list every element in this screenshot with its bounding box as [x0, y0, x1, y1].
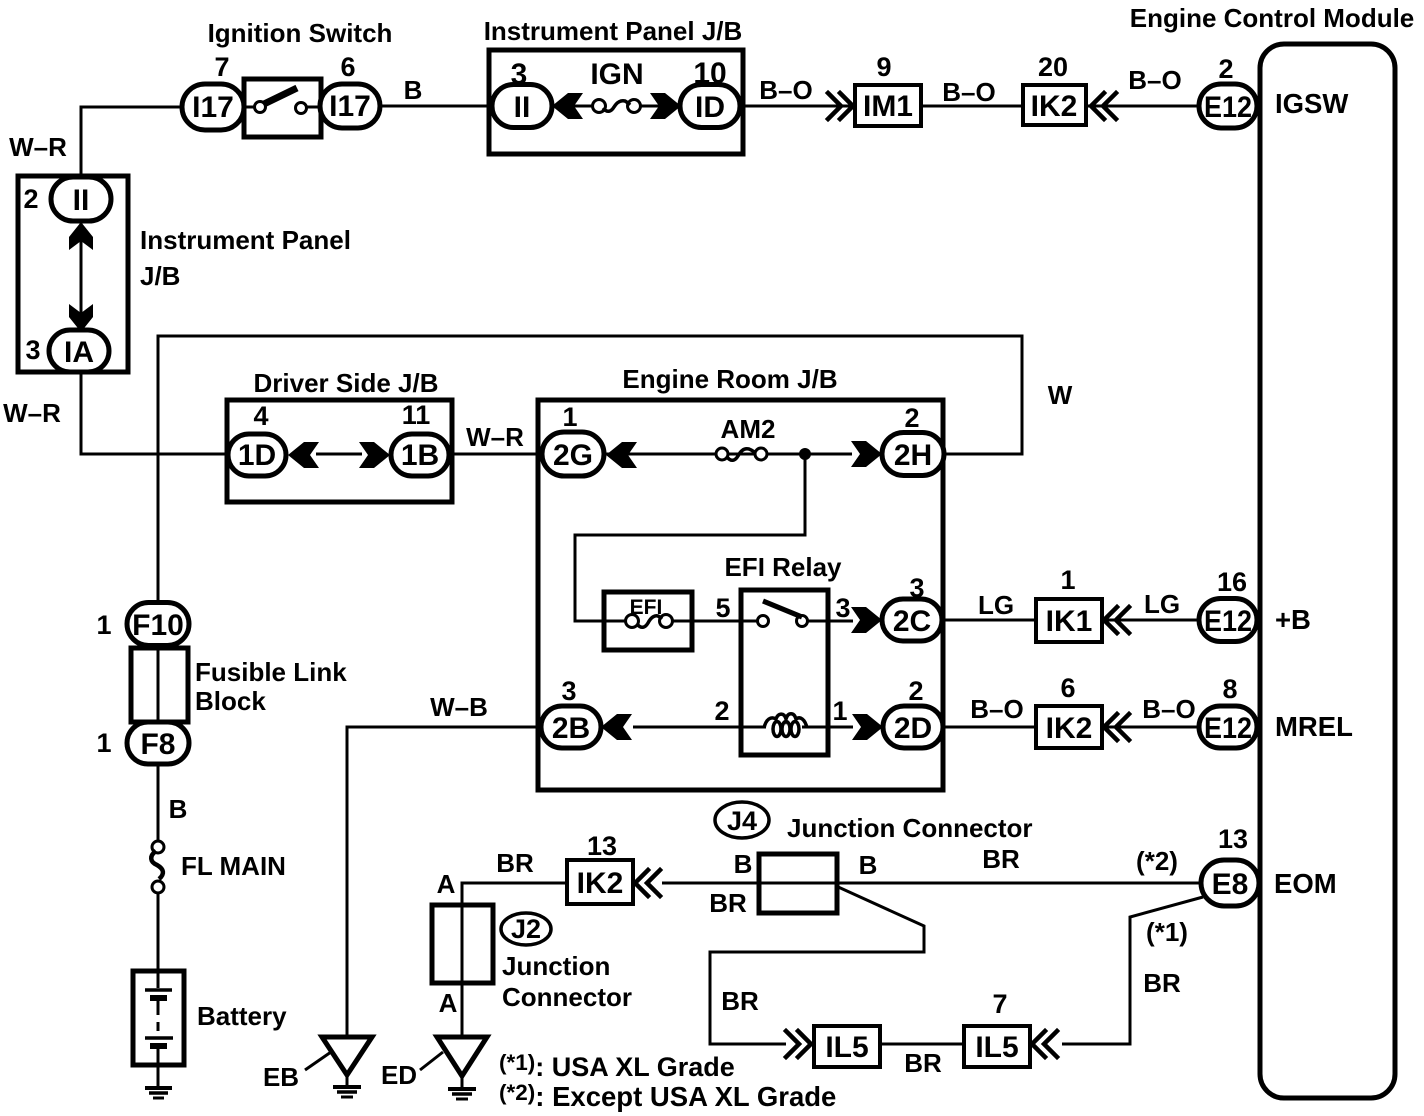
svg-text:3: 3 — [511, 58, 528, 91]
svg-text:8: 8 — [1222, 674, 1237, 704]
svg-text:16: 16 — [1217, 567, 1247, 597]
svg-text:IK1: IK1 — [1046, 605, 1093, 638]
svg-text:B: B — [859, 850, 878, 880]
svg-text:Block: Block — [195, 686, 266, 716]
svg-text:6: 6 — [1060, 673, 1075, 703]
svg-text:10: 10 — [693, 57, 726, 90]
svg-text:J/B: J/B — [140, 261, 180, 291]
svg-text:2G: 2G — [553, 439, 593, 472]
svg-text:3: 3 — [835, 593, 850, 623]
svg-text:J4: J4 — [727, 806, 757, 836]
svg-text:1: 1 — [1060, 565, 1075, 595]
svg-text:1B: 1B — [401, 439, 439, 472]
svg-text:ED: ED — [381, 1060, 417, 1090]
svg-text:II: II — [73, 184, 90, 217]
svg-text:W–B: W–B — [430, 692, 488, 722]
svg-text:(*1): USA XL Grade: (*1): USA XL Grade — [499, 1050, 735, 1082]
svg-text:Driver Side J/B: Driver Side J/B — [254, 368, 439, 398]
svg-text:IL5: IL5 — [825, 1031, 868, 1064]
svg-text:E12: E12 — [1204, 605, 1252, 638]
svg-text:BR: BR — [721, 986, 759, 1016]
svg-text:20: 20 — [1038, 52, 1068, 82]
svg-text:13: 13 — [1218, 824, 1248, 854]
svg-text:Junction Connector: Junction Connector — [787, 813, 1033, 843]
svg-text:EFI Relay: EFI Relay — [724, 552, 842, 582]
svg-text:Ignition Switch: Ignition Switch — [208, 18, 393, 48]
svg-text:MREL: MREL — [1275, 711, 1353, 742]
svg-text:13: 13 — [587, 831, 617, 861]
svg-text:2D: 2D — [894, 712, 932, 745]
svg-text:+B: +B — [1275, 604, 1311, 635]
svg-text:I17: I17 — [329, 90, 371, 123]
svg-text:Junction: Junction — [502, 951, 610, 981]
svg-text:FL MAIN: FL MAIN — [181, 851, 286, 881]
svg-text:Connector: Connector — [502, 982, 632, 1012]
svg-text:B–O: B–O — [1142, 694, 1195, 724]
svg-text:Fusible Link: Fusible Link — [195, 657, 347, 687]
svg-text:E8: E8 — [1212, 868, 1249, 901]
svg-text:(*1): (*1) — [1146, 917, 1188, 947]
svg-text:W: W — [1048, 380, 1073, 410]
svg-text:BR: BR — [709, 888, 747, 918]
svg-text:4: 4 — [253, 401, 268, 431]
svg-text:B–O: B–O — [759, 75, 812, 105]
svg-text:2: 2 — [714, 696, 729, 726]
svg-text:LG: LG — [978, 590, 1014, 620]
svg-text:J2: J2 — [511, 914, 541, 944]
svg-text:5: 5 — [715, 593, 730, 623]
svg-text:(*2): Except USA XL Grade: (*2): Except USA XL Grade — [499, 1080, 836, 1112]
svg-text:Engine Room J/B: Engine Room J/B — [622, 364, 837, 394]
svg-text:2: 2 — [908, 676, 923, 706]
svg-text:IM1: IM1 — [863, 90, 913, 123]
svg-text:1: 1 — [96, 728, 111, 758]
svg-text:2H: 2H — [894, 439, 932, 472]
svg-text:3: 3 — [561, 676, 576, 706]
svg-text:BR: BR — [1143, 968, 1181, 998]
svg-text:IGN: IGN — [590, 58, 643, 91]
svg-text:IK2: IK2 — [1046, 712, 1093, 745]
svg-text:1D: 1D — [238, 439, 276, 472]
svg-text:1: 1 — [562, 402, 577, 432]
svg-text:IA: IA — [64, 336, 94, 369]
svg-text:B: B — [169, 794, 188, 824]
svg-text:A: A — [439, 988, 458, 1018]
svg-text:EFI: EFI — [630, 596, 663, 619]
svg-text:W–R: W–R — [9, 132, 67, 162]
svg-text:2C: 2C — [893, 605, 931, 638]
svg-text:EOM: EOM — [1274, 868, 1337, 899]
svg-text:B–O: B–O — [1128, 65, 1181, 95]
svg-text:B: B — [734, 849, 753, 879]
svg-text:F10: F10 — [132, 609, 184, 642]
svg-text:Battery: Battery — [197, 1001, 287, 1031]
svg-text:IK2: IK2 — [577, 867, 624, 900]
svg-text:E12: E12 — [1204, 91, 1252, 124]
svg-text:2: 2 — [904, 403, 919, 433]
svg-text:7: 7 — [992, 989, 1007, 1019]
svg-text:2: 2 — [1218, 54, 1233, 84]
svg-text:W–R: W–R — [466, 422, 524, 452]
svg-text:1: 1 — [96, 610, 111, 640]
svg-text:3: 3 — [909, 573, 924, 603]
svg-text:Instrument Panel J/B: Instrument Panel J/B — [484, 16, 743, 46]
svg-text:9: 9 — [876, 52, 891, 82]
svg-text:Instrument Panel: Instrument Panel — [140, 225, 351, 255]
svg-text:EB: EB — [263, 1062, 299, 1092]
svg-text:W–R: W–R — [3, 398, 61, 428]
svg-text:IL5: IL5 — [975, 1031, 1018, 1064]
svg-text:BR: BR — [982, 844, 1020, 874]
svg-text:ID: ID — [695, 91, 725, 124]
svg-text:II: II — [514, 91, 531, 124]
svg-text:1: 1 — [832, 696, 847, 726]
svg-text:LG: LG — [1144, 589, 1180, 619]
svg-text:BR: BR — [496, 848, 534, 878]
svg-text:I17: I17 — [192, 91, 234, 124]
svg-text:B–O: B–O — [970, 694, 1023, 724]
svg-text:IGSW: IGSW — [1275, 88, 1348, 119]
svg-text:Engine Control Module: Engine Control Module — [1130, 3, 1415, 33]
svg-text:BR: BR — [904, 1048, 942, 1078]
svg-text:IK2: IK2 — [1031, 90, 1078, 123]
svg-text:A: A — [437, 869, 456, 899]
svg-text:(*2): (*2) — [1136, 846, 1178, 876]
svg-text:2B: 2B — [552, 712, 590, 745]
svg-text:AM2: AM2 — [721, 414, 776, 444]
svg-text:3: 3 — [25, 335, 40, 365]
svg-text:B–O: B–O — [942, 77, 995, 107]
svg-text:6: 6 — [340, 52, 355, 82]
svg-text:B: B — [404, 75, 423, 105]
svg-text:E12: E12 — [1204, 712, 1252, 745]
svg-text:11: 11 — [402, 400, 431, 430]
svg-text:7: 7 — [214, 52, 229, 82]
svg-text:2: 2 — [23, 184, 38, 214]
svg-text:F8: F8 — [140, 728, 175, 761]
